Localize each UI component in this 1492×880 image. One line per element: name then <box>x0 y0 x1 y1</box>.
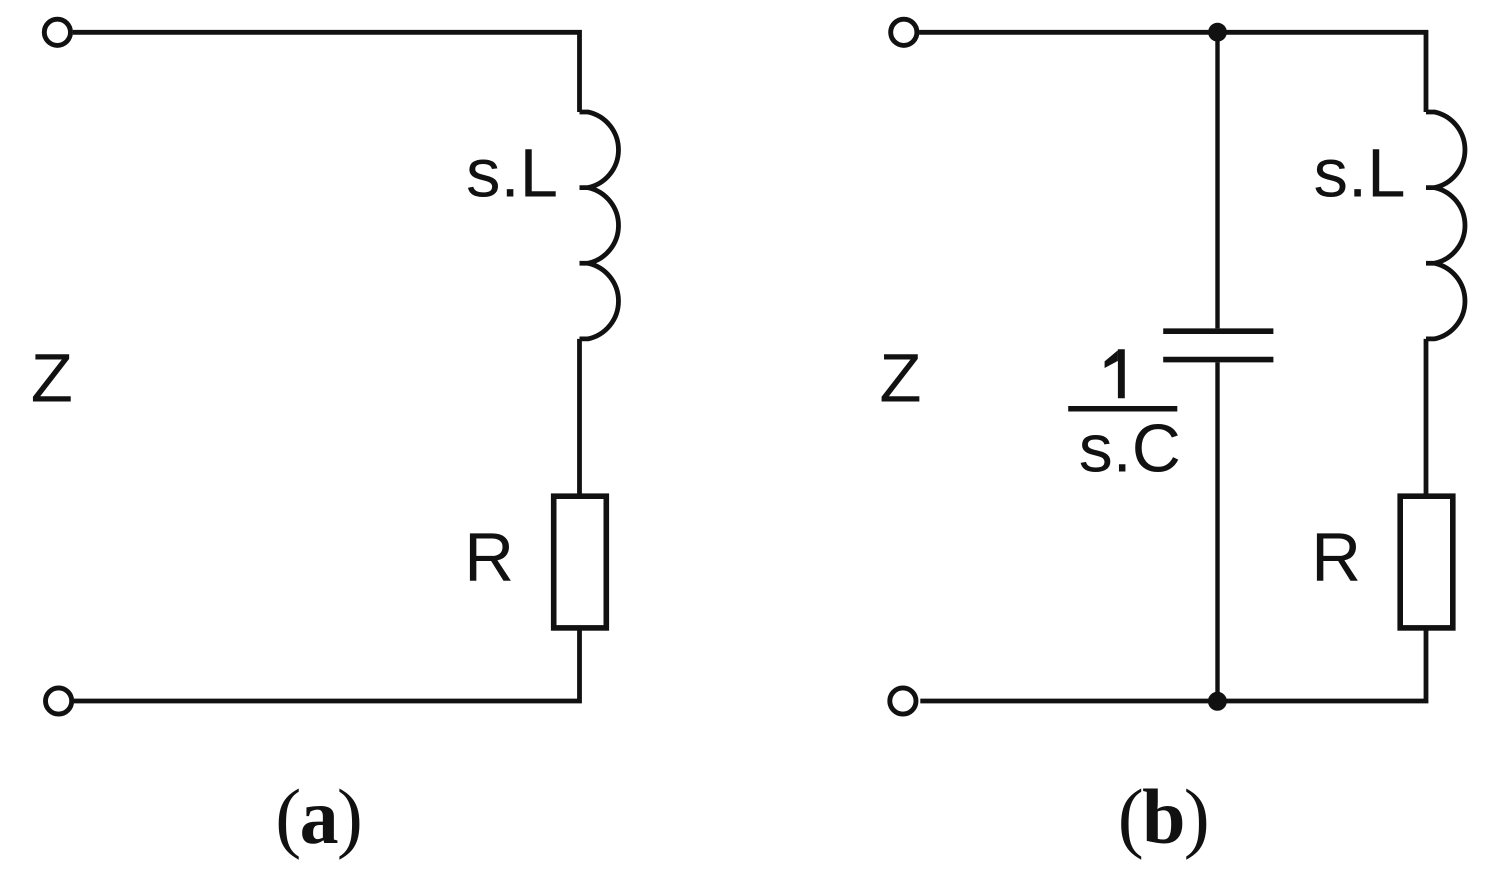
terminal (b) bottom-left <box>890 688 916 714</box>
fraction bar of 1/s.C <box>1068 406 1177 412</box>
wire (b) capacitor branch upper: top node down to capacitor <box>1215 32 1219 328</box>
terminal (b) top-left <box>891 19 917 45</box>
resistor R (b) body <box>1400 496 1453 628</box>
wire (b) top: terminal to top-right corner, then down to inductor <box>919 32 1426 112</box>
inductor L (b) : 3 bumps on axis x=1426 <box>1426 112 1465 339</box>
svg-text:Z: Z <box>31 340 73 417</box>
svg-text:s.L: s.L <box>1314 134 1406 211</box>
resistor R (a) body <box>554 496 607 628</box>
svg-text:(a): (a) <box>275 773 361 860</box>
wire (a) resistor to bottom, bottom wire back to terminal <box>74 629 580 701</box>
wire (b) resistor to bottom, bottom wire back to terminal <box>920 629 1426 701</box>
inductor L (a) : 3 bumps on axis x=579.5 <box>580 112 619 339</box>
wire (b) inductor to resistor <box>1424 339 1429 495</box>
capacitor C (b) bottom plate <box>1163 357 1273 363</box>
svg-text:(b): (b) <box>1118 773 1208 860</box>
wire (b) capacitor branch lower: capacitor down to bottom node <box>1215 362 1219 701</box>
svg-text:s.L: s.L <box>466 134 558 211</box>
svg-text:s.C: s.C <box>1079 410 1181 486</box>
terminal (a) bottom-left <box>46 688 72 714</box>
wire (a) top: terminal to top-right corner, then down to inductor <box>73 32 580 112</box>
junction node (b) top <box>1208 23 1227 42</box>
svg-text:R: R <box>464 519 514 596</box>
capacitor C (b) top plate <box>1163 328 1273 334</box>
svg-text:R: R <box>1311 519 1361 596</box>
terminal (a) top-left <box>44 19 70 45</box>
label 1 (numerator of 1/s.C, Arial-style digit drawn as path) <box>1105 350 1118 368</box>
svg-text:Z: Z <box>879 340 921 417</box>
wire (a) inductor to resistor <box>577 339 582 495</box>
junction node (b) bottom <box>1208 692 1227 711</box>
